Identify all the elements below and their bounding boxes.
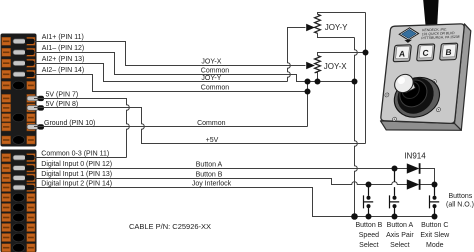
svg-text:Button B: Button B [355,222,382,229]
wire common link vertical [307,82,309,127]
svg-text:AI1– (PIN 12): AI1– (PIN 12) [42,45,84,52]
wire AI1- to Common rail [34,53,355,82]
svg-text:Button A: Button A [387,222,414,229]
terminal block J1 (upper) [1,34,45,147]
junction button A branch [392,166,398,172]
svg-text:CABLE P/N: C25926-XX: CABLE P/N: C25926-XX [129,222,211,231]
pushbutton SW-B [364,185,374,217]
svg-text:Speed: Speed [359,232,379,239]
svg-text:Button A: Button A [196,162,223,169]
svg-text:+5V: +5V [206,137,219,144]
svg-text:5V (PIN 7): 5V (PIN 7) [46,91,79,98]
svg-text:Exit Slew: Exit Slew [420,232,450,239]
keycap B [440,43,458,60]
svg-text:Common: Common [201,68,230,75]
wire AI1+ to JOY-X wiper [34,42,306,66]
pushbutton SW-C [430,185,440,217]
junction JOY-Y bottom [352,79,358,85]
arrow wiper JOY-Y [306,24,315,32]
junction rail D [432,214,438,220]
keycap A [393,45,411,62]
svg-text:Mode: Mode [426,242,444,249]
keycap C [417,44,435,61]
svg-text:Button B: Button B [196,172,223,179]
wire riser JOY-Y wiper with hops [288,28,306,82]
logo text lines [421,27,461,40]
junction rail C [392,214,398,220]
joystick enclosure front face [381,24,464,124]
junction JOY-X bottom [315,79,321,85]
svg-text:IN914: IN914 [404,152,426,161]
ferrule row 9 [27,125,39,130]
svg-text:AI2– (PIN 14): AI2– (PIN 14) [42,67,84,74]
ferrule row 1 [13,39,26,44]
wire vertical B pot tops to +5V [365,13,367,144]
wire diode2 out [419,184,435,186]
svg-text:JOY-X: JOY-X [201,59,221,66]
ferrule row 4 lower [13,185,26,190]
wire Ground pin10 Common bus [34,126,308,128]
ferrule row 7 [27,106,39,111]
logo diamond [398,27,419,43]
svg-text:C: C [422,48,429,58]
wire diode1 out to button C [419,169,435,185]
svg-text:Common: Common [197,120,226,127]
wire vertical A common to rail with hops [355,82,358,217]
joystick ball [394,74,414,93]
wire 5V pin7 down to Common 0-3 with hops [34,99,129,158]
svg-text:Select: Select [390,242,410,249]
junction diode out [432,182,438,188]
pot JOY-X leads [318,53,366,56]
joystick boot [392,77,441,118]
screw 4 [392,117,396,121]
ferrule row 3 lower [13,176,26,181]
svg-text:Ground (PIN 10): Ground (PIN 10) [44,120,95,127]
wire Digital Input 0 Button A line [34,168,408,170]
ferrule row 6 [27,96,39,101]
arrow wiper JOY-X [306,62,315,70]
ferrule row 2 [13,50,26,55]
screw 3 [436,108,440,112]
svg-text:AI2+ (PIN 13): AI2+ (PIN 13) [42,56,85,63]
junction rail A [351,213,358,220]
wire Common 0-3 [34,157,127,159]
svg-text:JOY-Y: JOY-Y [201,75,221,82]
svg-text:Joy Interlock: Joy Interlock [192,181,232,188]
diode D2 IN914 [407,179,420,190]
wire AI2+ to JOY-Y bus [34,64,288,82]
svg-text:Button C: Button C [421,222,448,229]
svg-text:Digital Input 1 (PIN 13): Digital Input 1 (PIN 13) [41,171,112,178]
pot JOY-Y leads [318,13,366,15]
diode D1 IN914 [407,163,420,174]
junction rail left [305,79,311,85]
svg-text:5V (PIN 8): 5V (PIN 8) [46,101,79,108]
svg-text:(all N.O.): (all N.O.) [446,202,474,209]
svg-text:Select: Select [359,242,379,249]
svg-text:A: A [399,49,406,59]
wire AI2- to Common [34,75,308,92]
wire Digital Input 1 Button B line with hops [34,179,408,185]
ferrule row 3 [13,61,26,66]
potentiometer JOY-X [315,56,321,73]
svg-text:B: B [445,47,452,57]
svg-text:AI1+ (PIN 11): AI1+ (PIN 11) [42,34,84,41]
potentiometer JOY-Y [315,14,321,33]
ferrule row 2 lower [13,166,26,171]
svg-text:Digital Input 2 (PIN 14): Digital Input 2 (PIN 14) [41,181,112,188]
terminal block J2 (lower) [1,150,37,252]
svg-text:Common 0-3 (PIN 11): Common 0-3 (PIN 11) [41,151,109,158]
pushbutton SW-A [390,169,400,217]
svg-text:Digital Input 0 (PIN 12): Digital Input 0 (PIN 12) [41,161,112,168]
svg-text:JOY-X: JOY-X [324,62,347,71]
junction common AI2- [305,89,311,95]
junction pot tops [363,50,369,56]
svg-text:Axis Pair: Axis Pair [386,232,414,239]
joystick cable [423,0,438,26]
ferrule row 4 [13,72,26,77]
wire 5V pin8 to +5V bus with hop [34,108,366,144]
junction rail B [366,214,372,220]
joystick enclosure side faces [455,24,471,131]
wire JOY-Y bottom drop with hop [355,38,358,82]
wire Digital Input 2 Joy Interlock to rail [34,188,435,217]
screw 1 [385,93,389,97]
junction button B branch [366,182,372,188]
ferrule row 1 lower [13,155,26,160]
screw 2 [432,80,436,84]
svg-text:Buttons: Buttons [449,193,473,200]
joystick stick neck [400,77,416,93]
svg-text:Common: Common [201,84,230,91]
svg-text:JOY-Y: JOY-Y [325,23,348,32]
